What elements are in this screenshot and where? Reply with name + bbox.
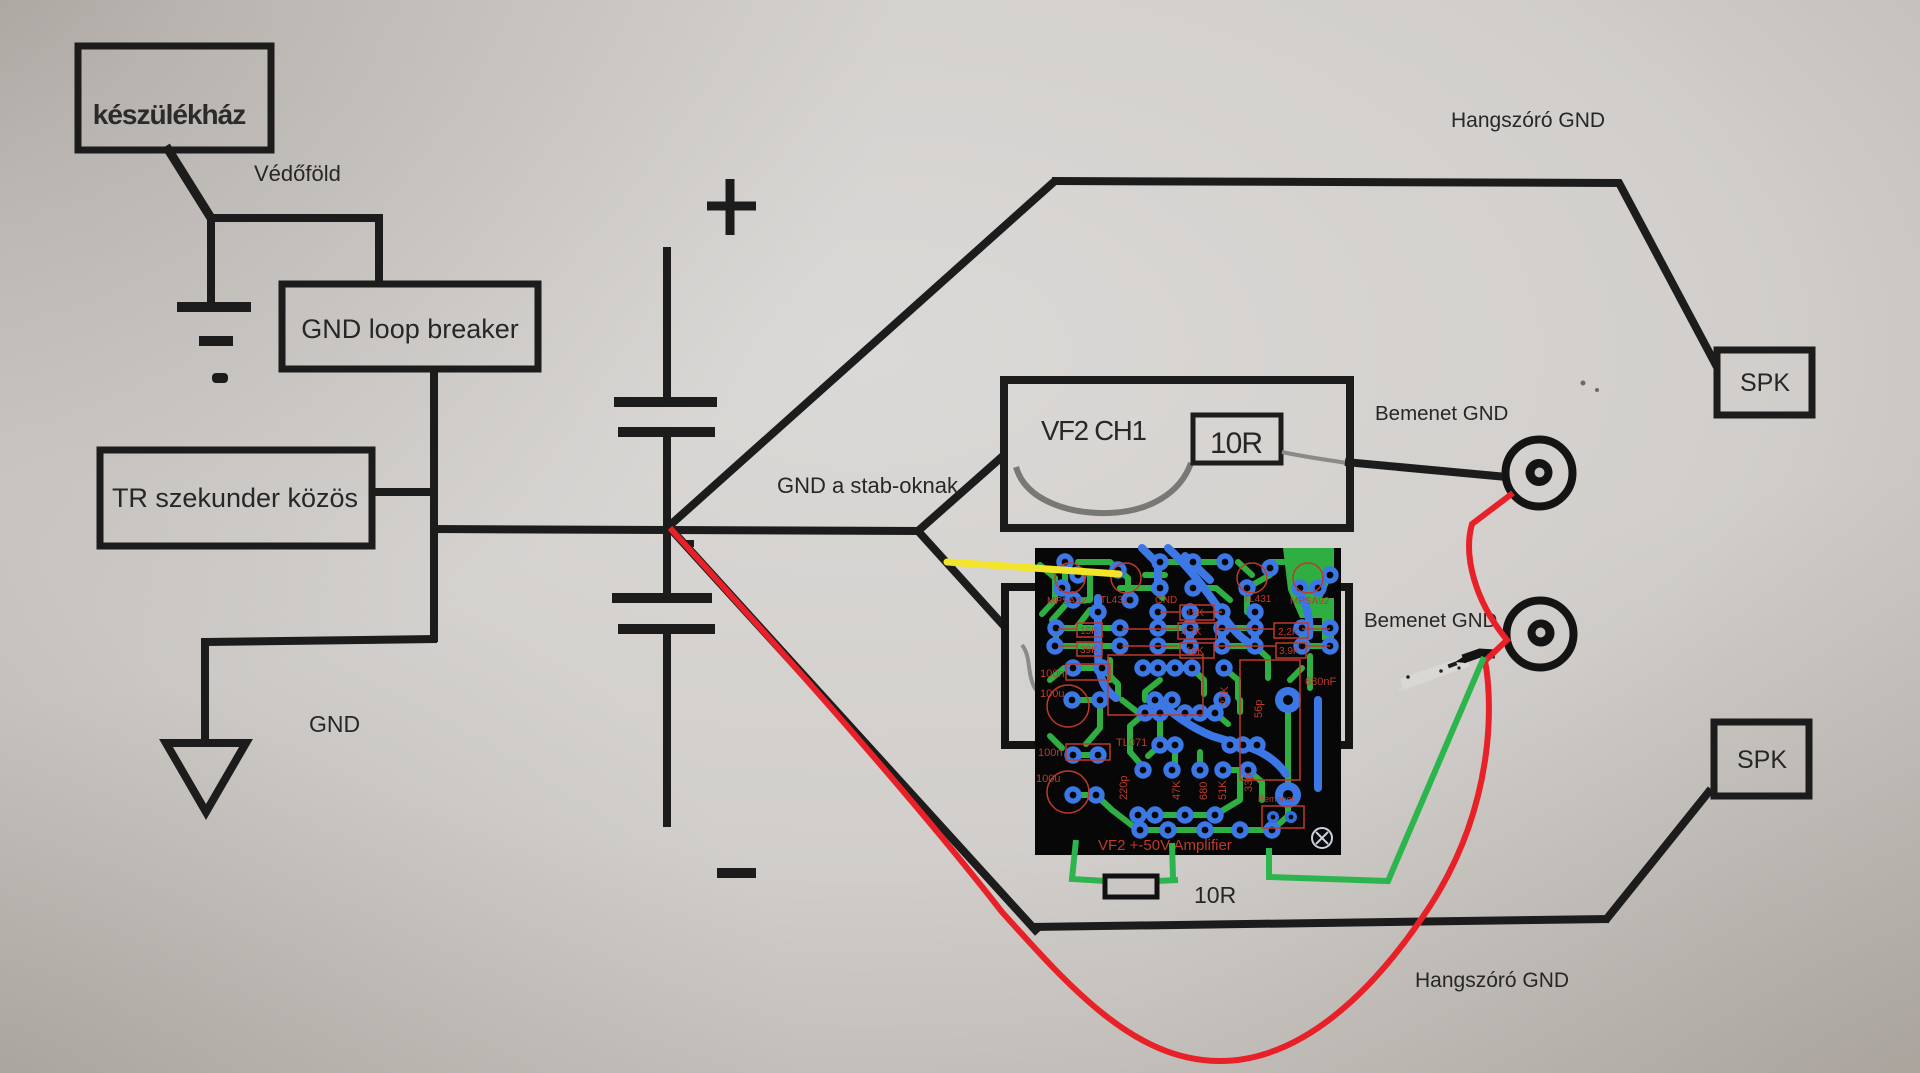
svg-text:100n: 100n [1040,668,1064,680]
svg-text:2,2K: 2,2K [1278,627,1299,638]
specks [1581,381,1586,386]
wire GND loop breaker down [430,366,438,642]
wire 10R to RCA1 [1345,462,1507,477]
box VF2 CH1 [1004,380,1350,528]
green traces [1040,562,1330,830]
red silkscreen [1036,594,1336,854]
capacitor C1 [614,397,717,407]
svg-text:3,9K: 3,9K [1279,646,1300,657]
svg-text:56p: 56p [1253,700,1265,718]
box GND loop breaker [282,284,538,369]
PCB image [1035,548,1341,855]
svg-text:100u: 100u [1040,688,1064,700]
wire diagonal to SPK1 [1618,181,1717,367]
svg-text:TR szekunder közös: TR szekunder közös [112,483,358,513]
gray squiggle left of PCB [1022,645,1036,690]
svg-text:GND: GND [1155,595,1177,606]
svg-text:Bemenet GND: Bemenet GND [1364,609,1497,632]
green zone top right [1283,548,1334,618]
svg-text:15K: 15K [1080,626,1098,637]
svg-text:33p: 33p [1243,774,1255,792]
RCA connector 2 [1507,601,1574,668]
svg-text:TL071: TL071 [1116,737,1147,749]
wire diagonal to SPK2 [1605,789,1711,921]
svg-text:15K: 15K [1186,608,1204,619]
wire left gnd branch [205,639,437,642]
wire bend horizontal [207,214,383,222]
RCA connector 1 [1506,440,1573,507]
capacitor C2 [612,593,712,603]
svg-text:SPK: SPK [1737,746,1787,774]
plus sign [707,179,756,235]
blue traces [1098,548,1318,788]
svg-text:680nF: 680nF [1305,676,1336,688]
wire fork down to CH2 [918,531,1004,626]
wire 10R to RCA1 gray part [1282,452,1347,463]
svg-text:680: 680 [1198,782,1210,800]
gray arc in VF2 box [1016,463,1191,513]
wire TR box to vertical [370,488,437,496]
wire készülékház to bend [166,146,211,218]
svg-text:SPK: SPK [1740,369,1790,397]
wire down to earth [207,214,215,303]
earth ground symbol [177,307,251,341]
box TR szekunder közös [100,450,372,546]
svg-text:27K: 27K [1219,686,1231,706]
tiny dash artifact [683,540,694,547]
box VF2 CH2 hidden [1005,587,1349,745]
ground triangle [166,743,246,812]
svg-text:220p: 220p [1118,776,1130,800]
blue pads [1046,553,1338,838]
wire node to cap2 [663,527,671,595]
green wire right [1269,657,1484,881]
wire fork up to VF2 CH1 [918,455,1004,531]
svg-text:GND a stab-oknak: GND a stab-oknak [777,473,959,498]
yellow wire [947,562,1119,574]
bemenet pads [1267,811,1279,823]
svg-text:10R: 10R [1210,427,1262,460]
svg-text:GND: GND [309,711,360,737]
wire top vertical [663,247,671,399]
svg-text:VF2 +-50V Amplifier: VF2 +-50V Amplifier [1098,837,1232,854]
svg-text:Bemenet: Bemenet [1258,794,1295,804]
wire node diagonal to bottom [669,527,1038,933]
svg-text:4,7K: 4,7K [1181,627,1202,638]
svg-text:Hangszóró GND: Hangszóró GND [1415,969,1569,992]
minus sign [717,868,756,878]
svg-text:Védőföld: Védőföld [254,161,341,186]
svg-text:MPSA92: MPSA92 [1290,596,1330,607]
arrow scribble to RCA2 [1463,653,1495,659]
svg-text:készülékház: készülékház [93,99,245,130]
svg-text:Hangszóró GND: Hangszóró GND [1451,109,1605,132]
wire down to GND loop breaker [375,214,383,287]
svg-text:TL431: TL431 [1243,594,1272,605]
wire cap1 to node [663,434,671,530]
wire bottom horizontal [1031,919,1609,927]
circle X [1312,828,1332,848]
svg-text:100n: 100n [1038,747,1062,759]
svg-text:GND loop breaker: GND loop breaker [301,314,519,344]
svg-text:47K: 47K [1171,780,1183,800]
box SPK2 [1714,722,1809,796]
svg-text:10R: 10R [1194,882,1236,908]
svg-text:TL431: TL431 [1100,595,1129,606]
wire top horizontal [1052,181,1621,183]
svg-text:39K: 39K [1080,645,1098,656]
svg-text:Bemenet GND: Bemenet GND [1375,402,1508,425]
svg-text:18K: 18K [1186,646,1204,657]
wire node diagonal to top right [668,180,1056,527]
green wire mid [1156,843,1178,881]
red wire [670,493,1513,1061]
white streak [1402,661,1468,684]
svg-text:MPSA42: MPSA42 [1047,596,1087,607]
svg-text:51K: 51K [1217,780,1229,800]
svg-text:VF2 CH1: VF2 CH1 [1041,415,1146,446]
box 10R [1193,415,1281,463]
wire cap2 down [663,629,671,827]
resistor 10R bottom [1105,876,1157,897]
box SPK1 [1717,350,1812,415]
green wire left [1072,840,1106,881]
box készülékház [78,46,271,150]
wire GND rail [431,529,922,531]
